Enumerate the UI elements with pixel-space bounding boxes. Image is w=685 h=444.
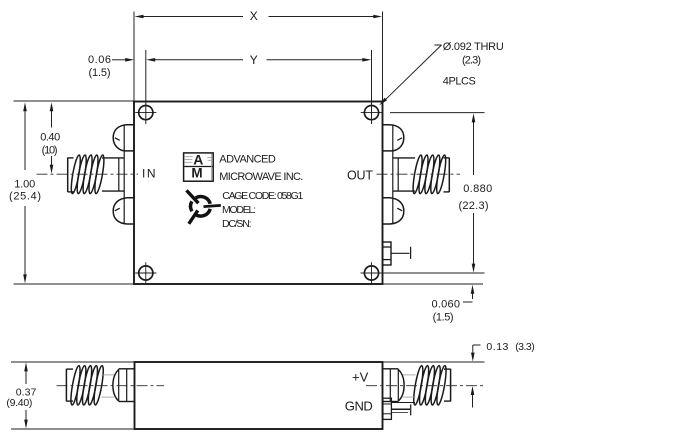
side view connector left: hex nut block [113,369,135,402]
0.13 lower arrow line [472,395,474,408]
SMA connector OUT threads [411,154,447,194]
svg-text:(10): (10) [42,144,58,156]
0.40 dimension line [51,111,53,128]
svg-text:GND: GND [345,398,373,413]
enclosure box (side view) [135,362,383,429]
IN connector hex-nut ear upper [113,125,134,151]
svg-text:DC/SN:: DC/SN: [222,218,252,230]
svg-text:0.40: 0.40 [40,131,60,143]
side view connector right: end cap [444,369,451,402]
side right centerline [366,385,484,387]
leader line for hole callout [435,44,442,46]
0.13 bracket [473,344,481,346]
Y dimension line [153,59,244,61]
svg-text:CAGE CODE: 058G1: CAGE CODE: 058G1 [222,190,303,202]
svg-text:4PLCS: 4PLCS [443,76,476,88]
Y dim extension lines [145,50,147,124]
svg-text:IN: IN [142,167,156,181]
svg-text:ADVANCED: ADVANCED [219,153,276,165]
OUT connector hex-nut ear lower [383,198,404,224]
svg-text:(25.4): (25.4) [9,191,41,203]
1.00 dimension line [24,111,26,171]
1.00 extension lines [14,100,135,102]
SMA connector IN (top view): end cap [68,158,74,192]
0.060 lower arrow line + leader [472,294,474,300]
svg-text:M: M [191,165,202,180]
+V feedthrough (top view) [383,242,411,265]
1.00 arrows [23,102,27,111]
feedthrough pins (side view) [383,398,415,419]
X dim extension lines [133,12,135,102]
0.37 arrows [24,362,28,371]
svg-text:MODEL:: MODEL: [222,204,256,216]
0.40 arrows [50,102,54,111]
OUT connector hex-nut ear upper [383,125,404,151]
side view connector right: threads [412,365,448,405]
svg-text:1.00: 1.00 [14,178,35,190]
X arrows [135,15,144,19]
0.06 arrow [125,58,134,62]
X dimension line [140,16,243,18]
side view connector left: threads [69,365,105,405]
0.880 dimension line [473,122,475,176]
enclosure box (top view) [134,102,383,285]
ESD symbol [187,190,221,223]
side view connector left: barrel hint lines [102,375,115,397]
OUT connector body (plain cylinder) [393,125,415,224]
svg-text:0.880: 0.880 [463,183,492,195]
svg-text:(1.5): (1.5) [89,67,111,79]
SMA connector IN body (plain cylinder) [102,125,124,224]
side view connector right: barrel hint lines [403,375,416,397]
arrowheads top view [23,15,475,294]
0.06 arrow line [112,59,127,61]
side left centerline [57,385,165,387]
mounting hole bottom-right [364,262,378,284]
svg-text:(3.3): (3.3) [515,341,535,353]
SMA connector IN threads [69,154,105,194]
side view connector right: hex nut block [383,369,405,402]
svg-text:MICROWAVE INC.: MICROWAVE INC. [219,171,303,183]
AM logo box [184,151,214,181]
svg-text:OUT: OUT [347,168,373,182]
mounting hole bottom-left [135,262,156,284]
0.13 top extension [383,361,485,363]
0.880 arrows [472,113,476,122]
svg-text:0.06: 0.06 [88,54,111,66]
svg-text:(22.3): (22.3) [459,200,489,212]
0.880 extension lines [390,112,485,114]
svg-text:(1.5): (1.5) [433,311,454,323]
svg-text:X: X [250,9,258,23]
0.37 extension lines [11,361,135,363]
IN connector hex-nut ear lower [113,198,134,224]
svg-text:+V: +V [352,369,369,384]
IN centerline [37,173,139,175]
side view connector left: end cap [66,369,73,402]
mounting hole top-left [135,106,156,120]
svg-text:0.13: 0.13 [486,341,508,353]
svg-text:Y: Y [250,53,258,67]
bottom edge extension (0.060) [383,283,484,285]
svg-text:0.060: 0.060 [432,299,461,311]
SMA connector OUT (top view): end cap [444,158,450,192]
0.37 dimension line [25,371,27,385]
svg-text:(2.3): (2.3) [462,55,481,67]
0.13 arrows [471,353,475,362]
hole leader arrow [379,98,387,106]
Y arrows [146,58,155,62]
mounting hole top-right [361,106,382,120]
OUT centerline [377,173,461,175]
svg-text:Ø.092 THRU: Ø.092 THRU [443,41,504,53]
0.060 arrow [471,285,475,294]
svg-text:(9.40): (9.40) [6,397,32,409]
